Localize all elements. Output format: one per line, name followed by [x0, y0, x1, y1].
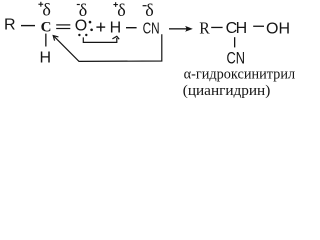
wire R-CH bond — [211, 27, 222, 28]
label -delta over CN — [143, 5, 147, 6]
label +delta over C — [38, 2, 43, 7]
svg-text:δ: δ — [145, 0, 153, 20]
svg-text:R: R — [4, 17, 16, 34]
wire C=O double bond — [56, 24, 70, 25]
label +delta over H — [113, 2, 118, 7]
svg-text:O: O — [75, 18, 87, 35]
reaction arrow — [169, 26, 193, 32]
svg-text:δ: δ — [117, 0, 125, 20]
wire CH-OH bond — [253, 26, 264, 27]
svg-text:α-гидроксинитрил: α-гидроксинитрил — [184, 67, 296, 83]
svg-text:CH: CH — [226, 20, 247, 37]
svg-text:H: H — [110, 19, 122, 36]
svg-text:CN: CN — [227, 49, 246, 67]
plus sign — [96, 23, 105, 32]
label -delta over O — [77, 4, 80, 5]
svg-text:OH: OH — [266, 21, 290, 38]
wire C-H bond — [45, 34, 46, 47]
svg-text:C: C — [41, 19, 52, 35]
svg-text:(циангидрин): (циангидрин) — [183, 83, 270, 99]
curved arrow O lone pair to H — [83, 36, 119, 42]
lone pair right of O — [89, 21, 92, 24]
wire H-CN bond — [126, 27, 137, 28]
svg-text:R: R — [199, 18, 210, 37]
curved arrow CN to carbonyl C (nucleophilic attack) — [53, 34, 162, 61]
svg-text:CN: CN — [143, 20, 160, 37]
svg-text:δ: δ — [42, 0, 50, 20]
wire CH-CN bond — [234, 37, 235, 47]
svg-text:H: H — [40, 49, 52, 66]
lone pair below O — [78, 34, 80, 36]
wire R-C bond — [21, 25, 35, 26]
